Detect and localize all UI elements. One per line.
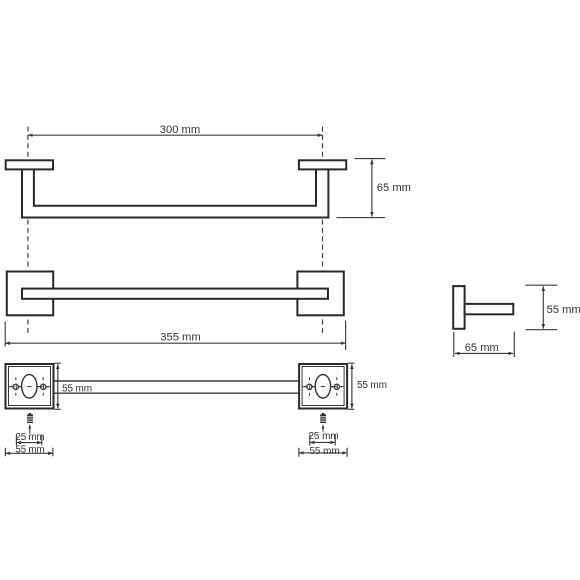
svg-text:55 mm: 55 mm [547, 304, 580, 316]
svg-text:25 mm: 25 mm [16, 432, 45, 443]
side view: wall plate [453, 286, 464, 329]
dim 65 mm (top view) extension line bottom [337, 217, 386, 219]
bottom view left: inner square [9, 367, 51, 406]
bottom view: connecting bar top line [55, 380, 300, 382]
side view dim 55 mm extension top [526, 284, 558, 286]
bottom view right: screw hole left [307, 384, 312, 389]
center line right post (top view, above plate) [322, 127, 324, 160]
dim 65 mm (top view) extension line top [355, 158, 386, 160]
side view dim 55 mm vertical line [542, 286, 544, 328]
bottom view left: dim 25 line [16, 442, 41, 444]
bottom view left: screw icon [27, 413, 33, 423]
svg-text:55 mm: 55 mm [357, 380, 387, 391]
dimension line 300 mm [28, 134, 323, 136]
bottom view left: dim 55 ext ticks lower [5, 448, 53, 457]
bottom view left: dim 55 line lower [5, 452, 53, 454]
bottom view left: dim 55 ext ticks [55, 363, 61, 409]
side view dim 65 mm extension left [453, 332, 455, 357]
bottom view right: oval center dash [321, 386, 326, 388]
side view dim 65 mm line [455, 352, 514, 354]
bottom view left: oval center dash [27, 386, 32, 388]
bottom view left: dim 55 vertical line [57, 364, 59, 408]
svg-text:300 mm: 300 mm [160, 124, 200, 136]
svg-text:55 mm: 55 mm [16, 445, 45, 456]
bottom view right: screw center marks [304, 377, 342, 396]
svg-text:25 mm: 25 mm [308, 431, 338, 442]
svg-text:55 mm: 55 mm [62, 383, 92, 394]
bottom view left: screw hole right [41, 384, 46, 389]
side view: arm [465, 304, 514, 314]
top view: bar with posts (outer outline) [22, 170, 328, 218]
top view: bar with posts (inner outline) [34, 170, 316, 206]
bottom view right: dim 55 line lower [299, 452, 347, 454]
front view: bar [22, 289, 328, 299]
bottom view right: screw hole right [334, 384, 339, 389]
bottom view right: dim 55 ext ticks [348, 363, 354, 409]
dim 355 mm extension line left [4, 321, 6, 346]
center line right post (below bar, to front view) [322, 220, 324, 270]
bottom view left: screw center marks [11, 377, 49, 396]
center line left post (top view, above plate) [27, 127, 29, 160]
bottom view right: dim 55 vertical line [351, 364, 353, 408]
top view: right wall plate [299, 160, 346, 169]
front view: right square plate [297, 272, 343, 316]
bottom view right: inner square [302, 367, 344, 406]
bottom view left: outer square [6, 364, 54, 409]
dim 65 mm (top view) vertical dimension line [371, 160, 373, 217]
top view: left wall plate [6, 160, 53, 169]
bottom view right: dim 55 ext ticks lower [299, 448, 347, 457]
dimension line 355 mm [5, 342, 345, 344]
bottom view right: outer square [299, 364, 347, 409]
svg-text:55 mm: 55 mm [309, 446, 339, 457]
bottom view left: dim 25 ext ticks [16, 435, 41, 446]
bottom view right: screw icon [320, 413, 326, 423]
svg-text:65 mm: 65 mm [465, 342, 499, 354]
side view dim 55 mm extension bottom [526, 329, 558, 331]
bottom view: connecting bar bottom line [55, 392, 300, 394]
center line right (below front square) [322, 320, 324, 335]
bottom view left: center dashes horizontal [9, 386, 51, 388]
bottom view right: dim 25 line [310, 441, 335, 443]
dim 355 mm extension line right [345, 321, 347, 350]
center line left post (below bar, to front view) [27, 220, 29, 270]
bottom view right: center dashes horizontal [302, 386, 344, 388]
bottom view left: oval [22, 375, 37, 398]
center line left (below front square) [27, 320, 29, 335]
bottom view right: oval [315, 375, 330, 398]
svg-text:65 mm: 65 mm [377, 182, 411, 194]
bottom view right: arrow up to screw [322, 425, 324, 432]
bottom view left: arrow up to screw [29, 425, 31, 434]
front view: left square plate [7, 272, 53, 316]
bottom view right: dim 25 ext ticks [310, 435, 335, 446]
svg-text:355 mm: 355 mm [160, 331, 200, 343]
side view dim 65 mm extension right [513, 332, 515, 357]
bottom view left: screw hole left [13, 384, 18, 389]
